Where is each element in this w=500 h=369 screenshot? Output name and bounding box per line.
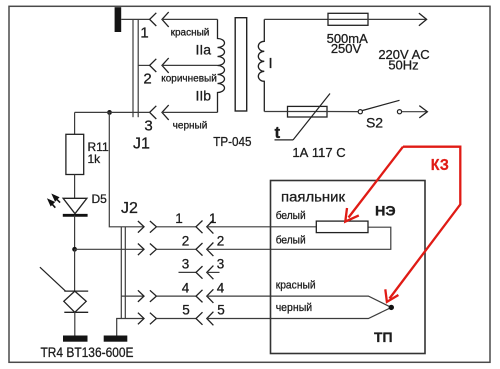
svg-text:1: 1 [209, 211, 217, 226]
wire cable 5 to thermocouple [207, 307, 391, 318]
connector J1 body [133, 19, 138, 117]
svg-text:1: 1 [175, 211, 183, 226]
J2 pin 2 wire from node A [75, 248, 144, 250]
svg-text:2: 2 [143, 71, 151, 88]
wire node A to triac [74, 249, 76, 291]
J2 pin 5 plug arrow [138, 313, 144, 325]
svg-text:IIa: IIa [196, 42, 212, 58]
КЗ arrowhead at ТП [385, 289, 398, 302]
thermal fuse FT1 [288, 106, 328, 117]
svg-text:КЗ: КЗ [431, 157, 449, 174]
soldering iron box [271, 181, 426, 354]
thermal fuse t mark [275, 139, 294, 141]
wire node junction to J2 pin1 [109, 112, 144, 226]
svg-text:D5: D5 [92, 192, 108, 206]
svg-text:I: I [269, 55, 273, 72]
J1 pin 1 socket [150, 13, 157, 26]
LED D5 [63, 198, 87, 213]
wire R11 to LED [74, 175, 76, 199]
svg-text:красный: красный [171, 28, 210, 39]
fuse F1 500mA [328, 13, 368, 25]
svg-text:3: 3 [144, 118, 152, 135]
triac gate wire [40, 267, 66, 291]
svg-text:1: 1 [140, 25, 148, 42]
svg-text:коричневый: коричневый [161, 74, 217, 85]
mains arrow bottom [419, 106, 427, 118]
wire J2 pin4 mid [156, 295, 196, 297]
resistor R11 [66, 134, 84, 174]
J2 pin 2 socket [150, 244, 157, 256]
wire J2 pin1 mid [156, 226, 196, 228]
svg-text:ТП: ТП [374, 329, 393, 345]
transformer primary winding I [258, 19, 264, 111]
transformer core [235, 18, 247, 111]
J2 pin 4 plug arrow [138, 290, 144, 302]
J2 pin 3 stub wire [179, 271, 197, 273]
svg-text:паяльник: паяльник [281, 188, 346, 204]
J2 pin 4 cable socket [196, 290, 203, 303]
mains terminal bar X1 [115, 7, 122, 32]
svg-text:НЭ: НЭ [375, 204, 396, 219]
svg-text:1А 117 С: 1А 117 С [292, 145, 345, 160]
wire ground bar to J2 pin5 [117, 319, 144, 336]
thermocouple junction ТП [389, 305, 394, 310]
mains arrow top [419, 13, 427, 26]
svg-text:250V: 250V [331, 41, 362, 56]
J2 pin 1 plug arrow [138, 221, 144, 233]
svg-text:3: 3 [182, 257, 190, 272]
svg-text:J2: J2 [121, 200, 138, 217]
J1 pin 1 plug arrow [162, 12, 169, 27]
J2 pin 1 cable socket [196, 221, 203, 234]
J2 pin 2 cable socket [196, 243, 203, 256]
svg-text:IIb: IIb [196, 88, 212, 104]
svg-text:5: 5 [217, 303, 225, 318]
J2 pin 3 cable socket [196, 266, 203, 279]
wire J2 pin2 mid [156, 248, 196, 250]
svg-text:1k: 1k [88, 152, 102, 166]
switch S2 [358, 100, 401, 113]
wire cable 1 to heater [207, 226, 316, 228]
J1 pin 3 plug arrow [162, 105, 169, 120]
connector J2 body [121, 227, 125, 319]
svg-text:S2: S2 [366, 114, 383, 130]
triac TR4 [64, 291, 88, 312]
svg-text:50Hz: 50Hz [388, 58, 418, 73]
J2 pin 5 socket [150, 313, 157, 325]
wire pin3 row to R11 [75, 111, 150, 113]
wire cable 2 to heater return [207, 227, 391, 249]
wire primary top to fuse [264, 18, 328, 20]
wire J1 pin2 to winding junction [162, 64, 218, 66]
J2 pin 5 cable socket [196, 312, 203, 325]
J2 pin 4 socket [150, 290, 157, 302]
wire cable 4 to thermocouple [207, 296, 391, 307]
J1 pin 3 socket [150, 106, 157, 119]
wire switch to mains arrow bottom [402, 111, 428, 113]
LED emission arrows [49, 195, 61, 208]
wire primary bottom to thermal fuse [264, 111, 287, 113]
wire triac to ground bar [74, 312, 76, 335]
J2 pin 1 socket [150, 221, 157, 233]
wire J1 pin3 to winding IIb [162, 111, 218, 113]
svg-text:4: 4 [182, 280, 190, 295]
svg-text:белый: белый [276, 210, 306, 222]
thermal fuse diagonal [293, 94, 330, 141]
wire bar to J1 pin1 [121, 18, 149, 20]
transformer secondary winding IIa IIb [218, 19, 225, 112]
J1 pin 2 plug arrow [162, 58, 169, 73]
J2 pin 4 cable arrow [207, 289, 214, 303]
svg-text:TR4 BT136-600E: TR4 BT136-600E [41, 345, 134, 360]
svg-text:4: 4 [217, 280, 225, 295]
wire J1 pin1 to winding IIa [162, 18, 218, 20]
svg-text:2: 2 [182, 234, 190, 249]
svg-text:красный: красный [276, 279, 316, 291]
node junction R11 top [107, 110, 112, 115]
wire J2 pin5 mid [156, 318, 196, 320]
J2 pin 4 stub [121, 295, 144, 297]
J2 pin 5 cable arrow [207, 312, 214, 326]
svg-text:черный: черный [276, 302, 313, 314]
heater element НЭ [316, 221, 368, 233]
ground bar right [104, 336, 128, 342]
svg-text:ТР-045: ТР-045 [213, 135, 251, 149]
wire LED to node A [74, 215, 76, 249]
svg-text:t: t [275, 123, 281, 142]
wire fuse to mains arrow [368, 18, 427, 20]
J2 pin 3 cable stub [207, 271, 220, 273]
ground bar left [63, 336, 88, 342]
svg-text:2: 2 [217, 234, 225, 249]
J2 pin 2 cable arrow [207, 243, 214, 257]
short-circuit annotation КЗ arrow to НЭ [349, 147, 461, 299]
wire thermal fuse to switch [327, 111, 358, 113]
J2 pin 3 cable arrow [207, 266, 214, 280]
node A junction dot [72, 247, 77, 252]
КЗ arrowhead at НЭ [345, 208, 359, 222]
svg-text:черный: черный [173, 121, 208, 132]
svg-text:5: 5 [182, 303, 190, 318]
svg-text:белый: белый [276, 234, 306, 246]
wire down to R11 [74, 112, 76, 134]
J1 pin 2 stub [138, 64, 149, 66]
J2 pin 1 cable arrow [207, 220, 214, 234]
svg-text:3: 3 [217, 257, 225, 272]
J1 pin 2 socket [150, 59, 157, 72]
svg-text:J1: J1 [133, 135, 150, 152]
J2 pin 2 plug arrow [138, 244, 144, 256]
